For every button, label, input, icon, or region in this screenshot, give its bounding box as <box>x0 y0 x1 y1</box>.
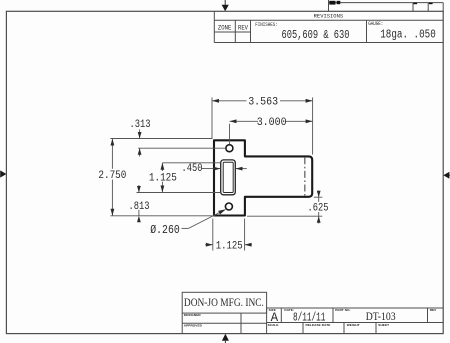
svg-text:REVISIONS: REVISIONS <box>314 13 344 20</box>
svg-text:SHEET: SHEET <box>378 323 389 327</box>
svg-text:1.125: 1.125 <box>216 241 243 253</box>
svg-text:1.125: 1.125 <box>149 173 177 185</box>
dimension 3.000 <box>230 121 313 144</box>
svg-text:GAUGE:: GAUGE: <box>368 21 383 27</box>
bottom hole <box>225 203 232 210</box>
svg-text:REV: REV <box>430 308 437 312</box>
dimension .313 <box>110 130 225 157</box>
svg-text:605,609 & 630: 605,609 & 630 <box>282 29 350 42</box>
right center mark <box>443 172 449 179</box>
slot inner <box>223 162 233 192</box>
slot outer <box>221 160 236 195</box>
svg-text:2.750: 2.750 <box>98 170 126 182</box>
svg-text:DON-JO MFG. INC.: DON-JO MFG. INC. <box>184 295 264 309</box>
svg-text:DESIGNER: DESIGNER <box>184 313 202 317</box>
svg-text:APPROVED: APPROVED <box>184 324 203 328</box>
svg-text:PART NO.: PART NO. <box>335 308 350 312</box>
revisions table grid <box>214 11 443 42</box>
dimension .450 <box>202 168 247 170</box>
left center mark <box>0 170 6 177</box>
svg-text:DT-103: DT-103 <box>366 311 396 323</box>
svg-text:.450: .450 <box>182 163 203 175</box>
dimension 1.125 (slot) <box>137 163 221 193</box>
svg-text:WEIGHT: WEIGHT <box>347 323 360 327</box>
svg-text:Ø.260: Ø.260 <box>150 223 180 237</box>
clipped text remnants above border <box>329 1 432 5</box>
svg-text:.813: .813 <box>129 201 150 213</box>
title block: DON-JO box <box>182 292 266 313</box>
svg-text:.313: .313 <box>130 119 151 131</box>
svg-text:3.000: 3.000 <box>257 117 287 129</box>
svg-text:3.563: 3.563 <box>248 97 278 109</box>
dimension 1.125 (bottom) <box>205 219 252 251</box>
hole diameter callout <box>182 210 226 229</box>
svg-text:FINISHES:: FINISHES: <box>255 22 277 28</box>
svg-text:.625: .625 <box>308 203 329 215</box>
svg-text:18ga. .050: 18ga. .050 <box>380 29 436 42</box>
title block grid <box>182 308 443 334</box>
top hole <box>226 145 233 152</box>
svg-text:ZONE: ZONE <box>218 24 232 31</box>
clipped table sliver above border <box>329 0 444 11</box>
svg-text:REV: REV <box>238 24 248 31</box>
top center mark <box>222 0 229 11</box>
bend centerline (dash-dot) <box>304 157 306 196</box>
dimension .625 <box>247 191 322 224</box>
part outline (strike plate with lip) <box>214 140 312 215</box>
dimension 3.563 <box>212 97 313 154</box>
svg-text:RELEASE DATE: RELEASE DATE <box>306 323 331 327</box>
dimension 2.750 <box>110 139 212 216</box>
dimension .813 <box>138 185 140 216</box>
bottom center mark <box>222 334 229 343</box>
svg-text:SCALE: SCALE <box>268 323 279 327</box>
